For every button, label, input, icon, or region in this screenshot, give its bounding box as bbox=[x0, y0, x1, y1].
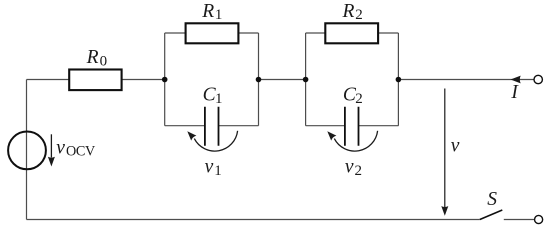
resistor R2 bbox=[325, 23, 378, 43]
svg-text:1: 1 bbox=[215, 91, 223, 107]
wire: section1 top branch stubs bbox=[165, 32, 259, 34]
v2 arc arrow bbox=[327, 131, 377, 151]
v arrow (right side) bbox=[441, 89, 448, 216]
wire: node B to node C bbox=[259, 79, 306, 81]
wire: section2 top branch stubs bbox=[306, 32, 399, 34]
svg-text:v: v bbox=[56, 137, 65, 158]
wire: section1 left vertical bbox=[164, 33, 166, 126]
svg-text:1: 1 bbox=[214, 163, 222, 179]
svg-text:v: v bbox=[451, 136, 460, 157]
svg-text:R: R bbox=[201, 1, 214, 22]
vOCV arrow bbox=[48, 134, 55, 166]
svg-text:R: R bbox=[342, 1, 355, 22]
node B junction dot bbox=[256, 77, 262, 83]
terminal top-right bbox=[534, 75, 542, 83]
wire: left rail vertical through source down to bottom bbox=[26, 80, 28, 220]
node A junction dot bbox=[162, 77, 168, 83]
node D junction dot bbox=[396, 77, 402, 83]
wire: node D to top-right terminal bbox=[398, 79, 533, 81]
svg-text:0: 0 bbox=[100, 54, 108, 70]
capacitor C2 bbox=[345, 107, 359, 146]
svg-text:OCV: OCV bbox=[66, 144, 96, 160]
wire: left rail top corner to R0 bbox=[27, 79, 70, 81]
wire: section2 right vertical bbox=[397, 33, 399, 126]
wire: R0 to node A bbox=[122, 79, 165, 81]
resistor R0 bbox=[69, 70, 121, 91]
terminal bottom-right bbox=[535, 215, 543, 223]
resistor R1 bbox=[186, 23, 239, 43]
wire: switch right contact to bottom-right terminal bbox=[504, 219, 535, 221]
svg-text:v: v bbox=[345, 156, 354, 177]
svg-text:R: R bbox=[86, 47, 99, 68]
svg-text:1: 1 bbox=[215, 7, 223, 23]
wire: section1 right vertical bbox=[258, 33, 260, 126]
current I arrowhead bbox=[511, 76, 521, 84]
svg-text:S: S bbox=[487, 189, 497, 210]
node C junction dot bbox=[303, 77, 309, 83]
switch S blade bbox=[480, 210, 503, 220]
voltage source vOCV circle bbox=[8, 132, 46, 170]
wire: section2 bottom branch stubs bbox=[306, 125, 399, 127]
svg-text:2: 2 bbox=[355, 91, 363, 107]
svg-text:v: v bbox=[205, 156, 214, 177]
wire: section1 bottom branch stubs bbox=[165, 125, 259, 127]
v1 arc arrow bbox=[187, 131, 237, 151]
svg-text:2: 2 bbox=[355, 163, 363, 179]
wire: section2 left vertical bbox=[305, 33, 307, 126]
wire: bottom rail bbox=[27, 219, 480, 221]
svg-text:2: 2 bbox=[355, 7, 363, 23]
capacitor C1 bbox=[205, 107, 219, 146]
